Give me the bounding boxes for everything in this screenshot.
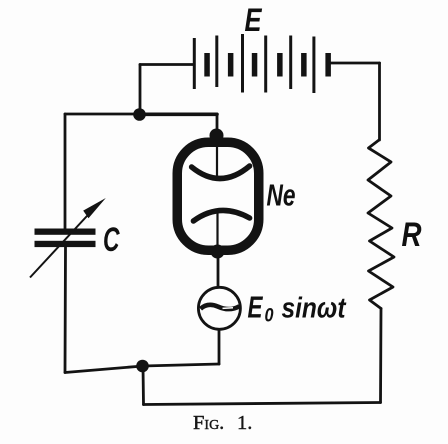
wire Ne top lead	[216, 114, 219, 135]
junction dot Ne bottom	[211, 245, 225, 259]
AC squiggle white slit	[223, 307, 234, 310]
battery short plate 3	[252, 53, 257, 77]
battery short plate 1	[204, 53, 210, 77]
neon lamp Ne envelope	[177, 142, 259, 250]
battery long plate 3	[241, 34, 244, 93]
battery long plate 6	[312, 37, 315, 94]
wire battery right lead horizontal	[330, 62, 380, 65]
wire bottom upper horizontal right part to AC source lead	[143, 364, 219, 366]
wire right vertical resistor bottom to corner	[379, 309, 382, 403]
battery short plate 2	[228, 53, 234, 77]
battery short plate 4	[277, 53, 283, 77]
junction dot at battery branch	[133, 108, 146, 121]
svg-text:Fig.1.: Fig.1.	[193, 412, 252, 434]
capacitor variable arrow head	[83, 198, 106, 218]
wire bottom lower horizontal	[144, 403, 381, 405]
resistor R zigzag body	[368, 140, 394, 309]
wire Ne internal top lead to electrode	[216, 135, 218, 176]
wire bottom upper horizontal left part	[65, 366, 143, 373]
capacitor C bottom plate	[35, 241, 96, 247]
wire Ne bottom dot to AC source	[217, 253, 220, 287]
svg-text:sinωt: sinωt	[282, 293, 347, 325]
capacitor variable arrow shaft	[30, 203, 99, 278]
junction dot Ne top	[210, 129, 224, 143]
neon lamp top electrode	[192, 166, 250, 179]
wire top horizontal from junction to Ne top	[140, 113, 217, 117]
wire left vertical lower (capacitor to bottom)	[64, 247, 67, 373]
wire battery left lead horizontal	[140, 63, 194, 66]
battery short plate 6	[325, 53, 331, 77]
wire vertical from junction to lower bottom wire	[142, 366, 145, 405]
wire battery left lead down to junction	[139, 65, 142, 115]
AC source E0 sin wt circle	[198, 287, 240, 329]
wire left vertical upper (to capacitor)	[64, 114, 67, 229]
battery long plate 1	[193, 38, 196, 89]
battery long plate 2	[215, 36, 218, 88]
battery short plate 5	[301, 53, 307, 77]
svg-text:E: E	[245, 2, 263, 38]
svg-text:Ne: Ne	[267, 178, 296, 213]
AC source sine squiggle	[201, 305, 240, 309]
battery E cells	[194, 34, 331, 93]
capacitor C top plate	[35, 229, 96, 235]
svg-text:0: 0	[265, 306, 274, 327]
battery long plate 4	[264, 36, 267, 93]
svg-text:R: R	[402, 216, 422, 254]
wire top horizontal from left corner to junction	[65, 113, 140, 116]
svg-text:E: E	[248, 290, 264, 325]
wire Ne internal bottom electrode lead	[216, 212, 218, 253]
battery long plate 5	[289, 36, 292, 90]
svg-text:C: C	[103, 221, 120, 259]
junction dot bottom wire	[136, 360, 149, 373]
wire right vertical to resistor top	[378, 63, 381, 140]
neon lamp bottom electrode	[193, 210, 249, 221]
wire AC source bottom lead	[218, 330, 221, 364]
